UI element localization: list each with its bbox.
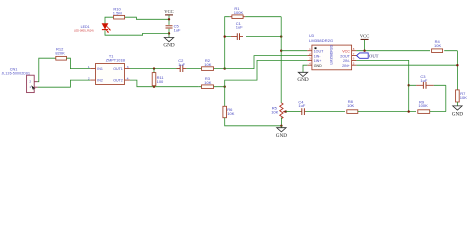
svg-text:2IN+: 2IN+ [342,64,350,68]
capacitor C4 1uF [298,99,305,115]
wire output rail (R1/C1 right to R5 top) [280,17,282,103]
svg-text:3: 3 [127,65,129,69]
node junction R11 top [153,67,155,69]
svg-text:LM358DR2G: LM358DR2G [330,44,334,64]
svg-text:1uF: 1uF [236,25,243,30]
wire C3 right down to bottom row [445,85,447,111]
svg-text:OUT1: OUT1 [113,67,123,71]
svg-text:GND: GND [314,64,322,68]
svg-text:GND: GND [276,133,287,139]
svg-text:10K: 10K [227,111,234,116]
svg-text:2IN-: 2IN- [343,59,351,63]
svg-text:100K: 100K [234,10,244,15]
wire 2IN+ row [356,64,457,66]
svg-text:10K: 10K [271,110,278,115]
node junction at C5 bottom / LED return [168,32,170,34]
svg-text:LM358DR2G: LM358DR2G [309,38,333,43]
ground GND (below R7) [452,106,463,118]
wire 1IN+ staircase [225,60,308,86]
connector CN1 JL126-50002D01 [2,68,38,93]
svg-text:GND: GND [452,111,463,117]
svg-text:1.5M: 1.5M [113,11,122,16]
node junction R11 bottom [153,86,155,88]
svg-text:820K: 820K [55,51,65,56]
resistor R3 10K [202,76,214,88]
resistor R11 100 [152,69,164,87]
node junction R3 / R6 / 1IN+ tap [224,86,226,88]
wire right rail (R4 to R7) [456,51,458,90]
resistor R6 10K [223,106,235,117]
wire R12 to T1 IN1 [67,58,91,68]
svg-text:100K: 100K [418,103,428,108]
wire C2 to R2 [186,68,224,70]
wire 2IN- to C3 rail [356,60,408,111]
trimmer R5 10K [271,103,287,119]
svg-text:1uF: 1uF [420,78,427,83]
wire U3 GND pin to ground [303,65,307,72]
ground GND (bottom center) [276,126,287,139]
svg-text:10K: 10K [204,80,211,85]
ground GND (below C5) [163,38,174,49]
wire CN1 pin1 to T1 IN2 [38,80,91,87]
svg-text:LED-0805_R(24): LED-0805_R(24) [74,29,94,33]
node junction R8/R9/2IN- [408,110,410,112]
svg-text:2OUT: 2OUT [340,54,350,58]
node junction 2IN+ / right rail [456,64,458,66]
svg-text:10K: 10K [434,43,441,48]
wire U3 VCC pin row to R4 [356,50,457,52]
wire T1 OUT2 jog down to lower row [130,80,199,87]
svg-text:OUT2: OUT2 [113,79,123,83]
wire CN1 pin2 riser to R12 [38,58,56,81]
svg-text:ZMPT101B: ZMPT101B [106,58,126,62]
wire R6 bottom row to R5 bottom [225,118,282,126]
resistor R10 1.5M [113,7,125,19]
wire wiper to C4 [286,111,301,113]
node junction C1 left rail [224,35,226,37]
LED LED1 [74,23,111,32]
wire R8 to R9 [358,111,416,113]
resistor R4 10K [432,39,443,52]
wire lower row to R3 [199,86,225,88]
node junction at VCC/R10 [168,18,170,20]
wire R6 branch [224,87,226,107]
svg-text:2: 2 [29,80,31,84]
svg-text:1: 1 [29,85,31,89]
svg-text:1IN+: 1IN+ [314,59,322,63]
svg-text:1OUT: 1OUT [314,50,324,54]
svg-text:2: 2 [88,77,90,81]
svg-text:10K: 10K [204,62,211,67]
node junction C3 left [408,84,410,86]
power flag VCC (top left) [164,9,173,25]
svg-text:JL126-50002D01: JL126-50002D01 [2,72,31,76]
svg-text:1uF: 1uF [174,27,181,32]
wire LED/R10 top row [105,17,169,23]
svg-text:GND: GND [297,77,308,83]
wire 1OUT to U3 [281,50,307,52]
ground GND (U3 pin 4) [297,72,308,83]
svg-text:VCC: VCC [342,50,350,54]
op-amp U3 LM358DR2G [307,34,356,70]
svg-text:LED1: LED1 [81,25,90,29]
svg-text:1uF: 1uF [298,103,305,108]
svg-text:100: 100 [157,79,164,84]
svg-text:4: 4 [127,77,129,81]
svg-text:10K: 10K [460,95,467,100]
svg-text:1IN-: 1IN- [314,54,322,58]
capacitor C2 1uF [177,58,187,72]
resistor R1 100K [230,6,245,18]
resistor R7 10K [456,90,468,106]
node junction VCC stem [363,50,365,52]
capacitor C5 [166,24,182,33]
net flag OUT [357,53,379,58]
wire 1IN- staircase [225,56,308,69]
resistor R9 100K [418,99,430,113]
capacitor C1 1uF [225,21,282,40]
capacitor C3 1uF [409,74,446,89]
resistor R12 820K [55,47,66,61]
svg-text:1uF: 1uF [178,62,185,67]
wire R9 right to C3 corner [430,111,446,113]
node junction 1OUT [280,50,282,52]
svg-text:VCC: VCC [164,9,173,14]
svg-text:VCC: VCC [360,34,369,39]
node junction R2 / feedback rail [224,67,226,69]
wire LED cathode return row [105,30,169,35]
resistor R2 10K [202,58,214,70]
wire C5 bottom to GND node [168,29,170,38]
wire T1 OUT1 row to C2 [130,68,180,70]
node junction bottom GND [280,125,282,127]
svg-text:IN1: IN1 [97,67,103,71]
svg-text:IN2: IN2 [97,79,103,83]
wire feedback rail left (R1/C1 left side) [225,17,282,69]
svg-text:GND: GND [163,42,174,48]
node junction C1 right rail [280,35,282,37]
resistor R8 10K [347,99,358,113]
svg-text:1: 1 [88,65,90,69]
transformer T1 ZMPT101B [88,54,130,84]
wire C4 to R8 [306,111,345,113]
svg-text:OUT: OUT [369,53,379,58]
wire R5 bottom to GND node [280,117,282,125]
power flag VCC (above U3) [360,34,369,51]
svg-text:10K: 10K [347,103,354,108]
